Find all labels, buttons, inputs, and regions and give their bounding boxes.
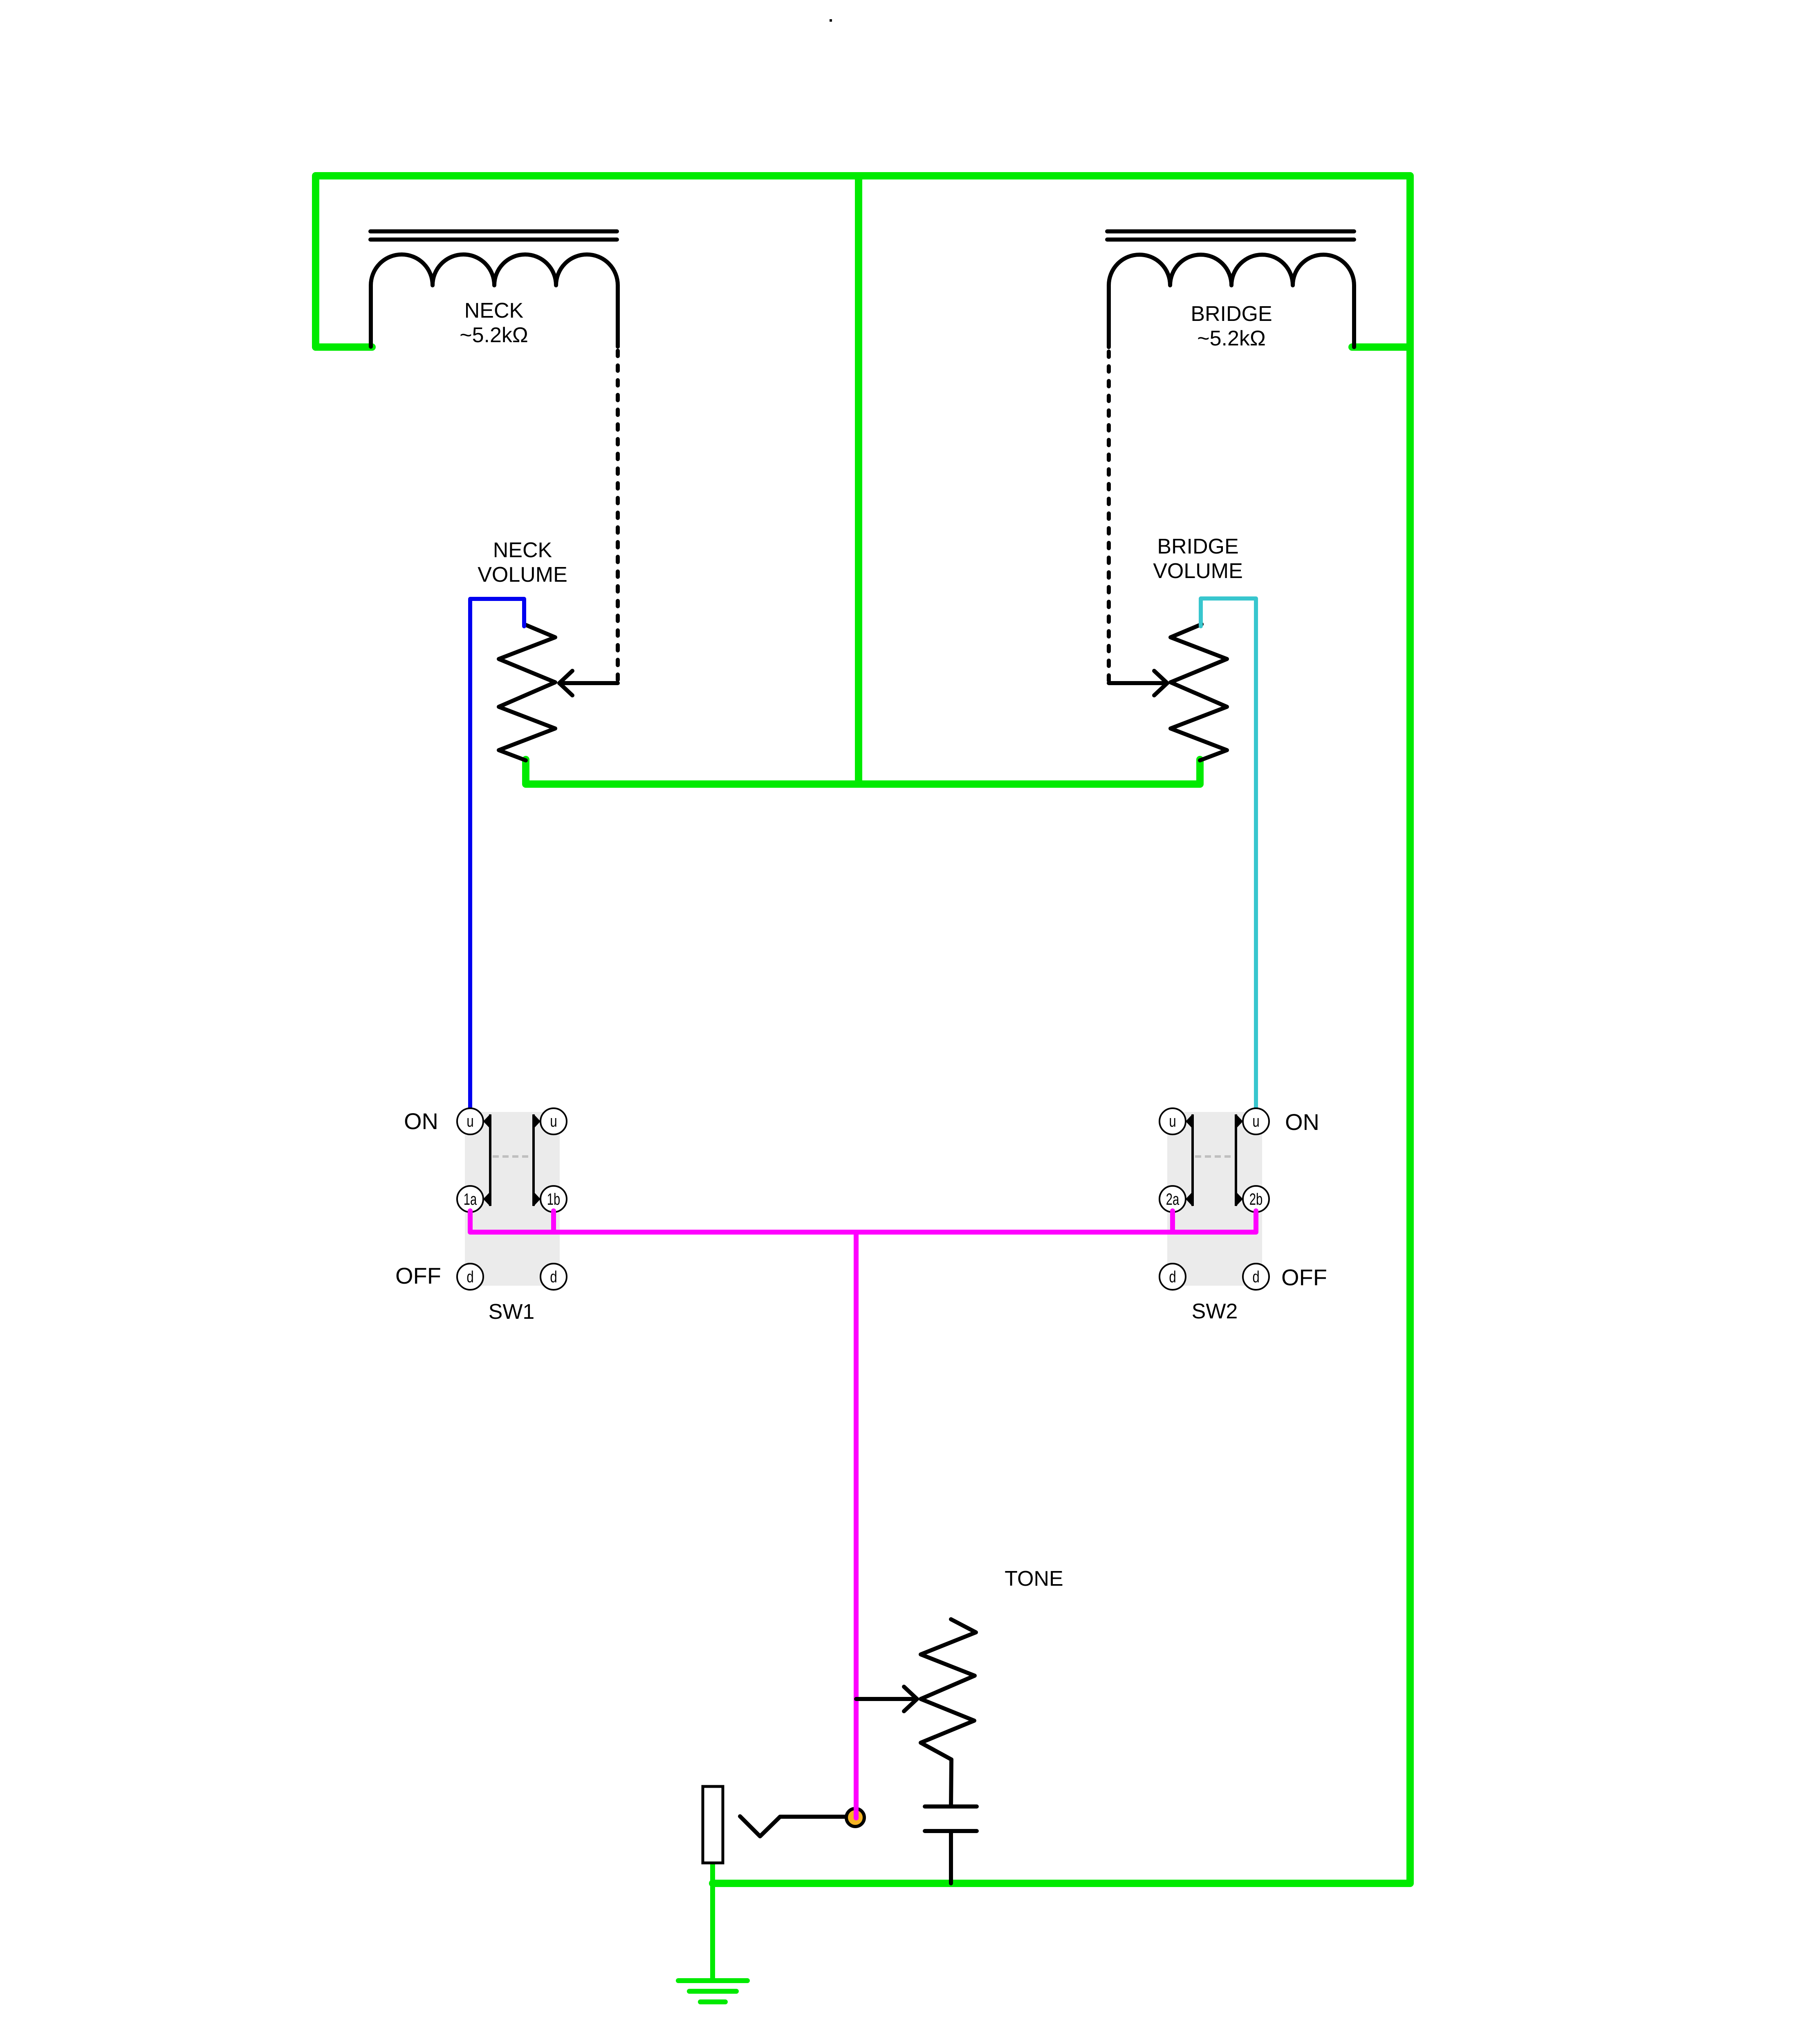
svg-text:BRIDGE: BRIDGE bbox=[1157, 535, 1238, 558]
svg-text:~5.2kΩ: ~5.2kΩ bbox=[460, 323, 528, 347]
svg-text:u: u bbox=[1252, 1112, 1259, 1130]
svg-text:u: u bbox=[466, 1112, 473, 1130]
svg-text:OFF: OFF bbox=[1281, 1264, 1327, 1290]
svg-text:ON: ON bbox=[404, 1108, 438, 1134]
svg-text:NECK: NECK bbox=[493, 538, 552, 562]
svg-text:SW2: SW2 bbox=[1192, 1300, 1238, 1323]
svg-text:ON: ON bbox=[1285, 1109, 1319, 1135]
svg-text:1b: 1b bbox=[547, 1190, 560, 1209]
svg-text:1a: 1a bbox=[464, 1190, 477, 1209]
svg-text:SW1: SW1 bbox=[489, 1300, 535, 1324]
svg-text:~5.2kΩ: ~5.2kΩ bbox=[1197, 327, 1266, 350]
svg-text:VOLUME: VOLUME bbox=[478, 563, 567, 587]
svg-text:d: d bbox=[466, 1268, 473, 1286]
svg-text:d: d bbox=[550, 1268, 557, 1286]
svg-text:VOLUME: VOLUME bbox=[1153, 559, 1243, 583]
svg-text:2b: 2b bbox=[1249, 1190, 1263, 1209]
svg-text:d: d bbox=[1169, 1268, 1176, 1286]
svg-text:TONE: TONE bbox=[1005, 1567, 1063, 1591]
svg-text:2a: 2a bbox=[1166, 1190, 1180, 1209]
svg-text:u: u bbox=[550, 1112, 557, 1130]
svg-text:OFF: OFF bbox=[395, 1263, 441, 1289]
svg-text:u: u bbox=[1169, 1112, 1176, 1130]
svg-text:NECK: NECK bbox=[464, 299, 524, 323]
svg-text:BRIDGE: BRIDGE bbox=[1191, 302, 1272, 326]
svg-text:d: d bbox=[1252, 1268, 1259, 1286]
